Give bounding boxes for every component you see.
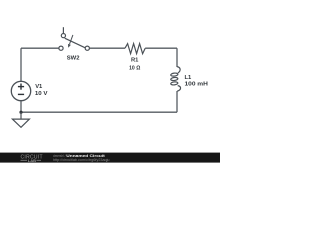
- switch left terminal: [59, 46, 63, 50]
- V1 plus sign: [18, 84, 24, 95]
- svg-text:10 Ω: 10 Ω: [129, 65, 140, 71]
- wire bottom horizontal: [21, 111, 177, 113]
- V1 minus sign: [18, 93, 24, 95]
- switch right terminal: [85, 46, 89, 50]
- CircuitLab logo: [21, 155, 43, 163]
- wire left vertical: [20, 48, 22, 81]
- switch lever: [65, 38, 86, 48]
- wire V1 bottom to junction: [20, 101, 22, 113]
- inductor L1: [171, 67, 181, 92]
- node junction dot: [19, 111, 22, 114]
- voltage source V1: [11, 81, 30, 100]
- watermark bar: [0, 153, 220, 163]
- svg-text:R1: R1: [131, 58, 139, 64]
- wire switch to resistor: [89, 47, 125, 49]
- svg-text:V1: V1: [35, 84, 43, 90]
- wire right vertical upper: [176, 48, 178, 67]
- svg-text:SW2: SW2: [67, 56, 80, 62]
- svg-text:L1: L1: [185, 75, 193, 81]
- wire switch top stub: [62, 27, 64, 33]
- wire right vertical lower: [176, 91, 178, 112]
- svg-text:100 mH: 100 mH: [185, 82, 208, 88]
- switch SW2: [59, 27, 90, 50]
- ground: [12, 112, 29, 127]
- switch top terminal: [61, 34, 65, 38]
- resistor R1: [125, 44, 145, 54]
- wire resistor to right corner: [145, 47, 177, 49]
- switch actuation arrow: [68, 35, 73, 48]
- wire top-left horizontal: [21, 47, 59, 49]
- svg-text:LAB: LAB: [28, 158, 36, 163]
- svg-text:http://circuitlab.com/c/trg6fy: http://circuitlab.com/c/trg6fy23aqju: [53, 158, 110, 162]
- svg-text:10 V: 10 V: [35, 91, 48, 97]
